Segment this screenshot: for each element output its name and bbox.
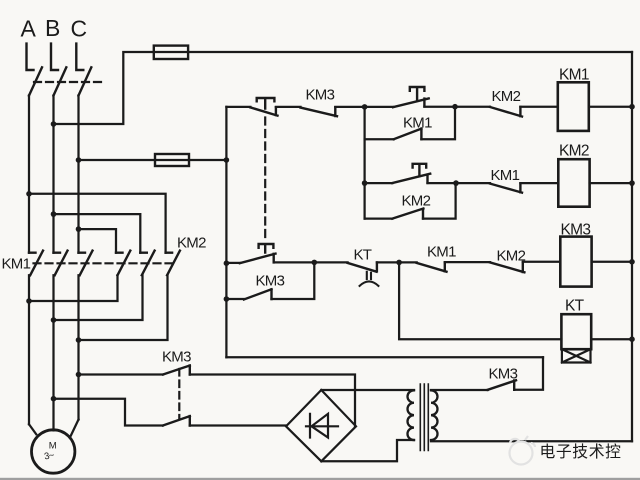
wire row3 SB1 to node — [274, 261, 315, 263]
wire bridge AC top to transformer secondary top — [321, 389, 414, 391]
svg-text:KM2: KM2 — [559, 143, 589, 160]
wire row3 KT to node — [377, 261, 399, 263]
junction braking tap on phase C — [76, 372, 82, 378]
wire KM2 pole 1 output — [29, 275, 118, 301]
junction row2 branch node right — [453, 180, 459, 186]
svg-text:KM3: KM3 — [162, 349, 191, 366]
bridge rectifier VC body — [286, 390, 356, 461]
wire KM3 brake contact 2 to bridge DC minus — [190, 424, 286, 426]
watermark logo — [510, 436, 536, 465]
wire KT coil to right rail — [591, 338, 632, 340]
junction phase A crossover tap — [26, 191, 32, 197]
junction right rail row3 — [629, 259, 635, 265]
fuse FU2 — [155, 154, 189, 166]
wire KM1 self-hold to node right — [421, 107, 455, 140]
pushbutton SB1 actuator — [257, 98, 275, 109]
contactor KM2 main pole 1 — [116, 251, 130, 276]
wire row1 node to SB2 — [365, 106, 393, 108]
wire motor lead W entry — [71, 420, 79, 436]
transformer T secondary winding — [407, 390, 414, 440]
contactor KM3 brake contact 1 — [163, 366, 190, 375]
fuse FU1 — [154, 46, 188, 59]
wire KM1 pole 3 output to motor lead W — [77, 275, 79, 419]
wire row3 KM1 interlock to KM2 interlock — [445, 261, 490, 263]
junction row3 KT coil node — [396, 260, 402, 266]
wire motor lead U entry — [29, 424, 36, 434]
junction phase B crossover tap — [51, 211, 57, 217]
svg-text:KM2: KM2 — [402, 193, 431, 210]
mechanical link KM1-KM2 main contacts — [34, 262, 178, 264]
time relay coil KT delay element — [562, 349, 591, 362]
transformer T core — [420, 384, 428, 451]
pushbutton SB1 brake actuator — [259, 244, 274, 253]
wire KM3 aux contact to bottom control line — [514, 357, 543, 390]
disconnect switch QS pole C blade — [79, 67, 92, 95]
contactor KM1 main pole 3 — [79, 251, 93, 276]
junction left control rail at fuse FU2 — [224, 157, 230, 163]
wire KM1 self-hold branch left drop — [363, 107, 365, 219]
junction row3 at left rail — [224, 260, 230, 266]
wire row2 node to KM1 interlock — [456, 182, 490, 184]
pushbutton SB3 actuator — [413, 164, 427, 176]
transformer T primary winding — [431, 390, 438, 440]
junction on phase B feeding fuse FU1 — [51, 121, 57, 127]
bottom photo border — [0, 478, 640, 480]
wire phase C crossover to KM2 pole 1 — [79, 229, 117, 253]
wire fuse FU2 to left control rail — [189, 159, 226, 161]
disconnect switch QS pole A blade — [29, 67, 42, 95]
junction row1 branch node right — [452, 104, 458, 110]
junction row3 self-hold node — [312, 260, 318, 266]
wire KM2 pole 3 output — [79, 275, 168, 340]
wire KM2 coil to right rail — [590, 182, 632, 184]
wire KM3 brake contact 1 to bridge DC plus — [190, 375, 355, 427]
wire row3 node to KM1 interlock — [399, 261, 417, 263]
time relay coil KT body — [561, 314, 591, 349]
svg-text:3~: 3~ — [43, 450, 55, 463]
wire bridge AC bottom to transformer secondary bottom — [321, 440, 414, 461]
disconnect switch QS pole B blade — [54, 67, 67, 95]
left control rail — [225, 107, 227, 357]
wire KM3 self-hold to node — [272, 262, 315, 299]
wire braking tap B to KM3 brake contact 2 — [54, 399, 163, 426]
contactor KM2 self-hold NO contact — [392, 209, 423, 219]
disconnect switch QS pole A terminal — [27, 44, 34, 70]
junction right rail KT — [629, 336, 635, 342]
junction merge pole 3 — [76, 337, 82, 343]
junction row2 branch node left — [362, 180, 368, 186]
wire row1 start — [226, 106, 250, 108]
mechanical link KM3 brake contacts — [178, 369, 180, 419]
pushbutton SB1 brake contact NO row3 — [240, 254, 276, 264]
junction on phase C feeding fuse FU2 — [76, 157, 82, 163]
bridge rectifier VC diode symbol — [306, 414, 338, 438]
svg-text:KM2: KM2 — [492, 88, 521, 105]
wire KM2 pole 2 output — [54, 275, 143, 320]
svg-text:KT: KT — [354, 247, 372, 264]
contactor KM1 interlock NC contact row3 — [417, 262, 447, 271]
junction braking tap on phase B — [51, 396, 57, 402]
contactor KM1 main pole 2 — [54, 251, 68, 276]
wire phase A crossover to KM2 pole 3 — [29, 194, 166, 253]
wire KM2 self-hold branch bottom — [365, 217, 393, 219]
wire KM3 coil to right rail — [592, 261, 632, 263]
svg-text:C: C — [71, 16, 87, 42]
wire bottom control line — [226, 356, 543, 358]
wire row1 SB1 to KM3 interlock — [276, 106, 301, 108]
wire phase A vertical — [28, 96, 30, 253]
pushbutton SB1 stop contact NC — [250, 107, 277, 115]
wire row1 KM2 interlock to KM1 coil — [520, 106, 557, 108]
contactor KM3 aux contact (transformer circuit) — [488, 380, 516, 390]
pushbutton SB2 actuator — [410, 87, 425, 100]
pushbutton SB2 start forward NO — [393, 98, 429, 107]
wire row2 SB3 to node right — [428, 182, 457, 184]
wire transformer primary top to KM3 aux contact — [431, 389, 488, 391]
junction merge pole 2 — [51, 317, 57, 323]
junction phase C crossover tap — [76, 226, 82, 232]
wire from phase B to fuse FU1 — [54, 52, 189, 124]
contactor coil KM2 — [558, 159, 589, 207]
contactor KM1 interlock NC contact row2 — [490, 183, 522, 192]
right rail — [631, 52, 633, 441]
junction merge pole 1 — [26, 298, 32, 304]
disconnect switch QS pole C terminal — [76, 44, 83, 70]
pushbutton SB1 mechanical link — [264, 118, 266, 242]
contactor KM2 interlock NC contact row1 — [490, 107, 522, 117]
contactor KM3 interlock NC contact row1 — [301, 107, 338, 116]
wire row1 KM3 interlock to node — [335, 106, 364, 108]
pushbutton SB3 start reverse NO — [392, 174, 430, 183]
wire row3 KM2 interlock to KM3 coil — [523, 261, 561, 263]
svg-text:电子技术控: 电子技术控 — [540, 443, 622, 461]
time relay KT delayed NC contact — [348, 262, 377, 271]
disconnect switch QS pole B terminal — [51, 44, 58, 70]
wire row3 node to KT contact — [314, 261, 347, 263]
contactor KM2 main pole 3 — [166, 251, 180, 276]
wire KM1 coil to right rail — [589, 106, 632, 108]
wire KM1 pole 2 output to motor lead V — [52, 275, 54, 430]
time relay KT delay symbol — [360, 272, 379, 286]
wire row3 start — [226, 262, 239, 264]
wire KT coil branch drop — [399, 262, 561, 339]
svg-text:A: A — [21, 16, 37, 42]
junction row1 branch node left — [362, 104, 368, 110]
wire phase B vertical — [52, 96, 54, 253]
wire from phase C to fuse FU2 — [79, 159, 190, 161]
contactor KM3 self-hold NO contact — [244, 289, 272, 299]
motor M 3-phase — [32, 430, 75, 473]
wire KM1 self-hold branch bottom — [365, 138, 394, 140]
svg-text:KT: KT — [565, 298, 585, 315]
wire fuse FU1 to right rail — [188, 51, 632, 53]
wire braking tap C to KM3 brake contact 1 — [79, 373, 164, 375]
svg-text:KM1: KM1 — [491, 167, 520, 184]
wire phase C vertical — [77, 96, 79, 253]
contactor coil KM1 — [558, 82, 589, 131]
wire motor lead V entry — [52, 429, 54, 431]
svg-text:KM1: KM1 — [2, 256, 31, 273]
junction right rail row1 — [629, 104, 635, 110]
wire KM3 self-hold branch bottom — [226, 298, 244, 300]
disconnect switch QS mechanical link — [34, 81, 102, 83]
svg-text:KM1: KM1 — [559, 67, 589, 84]
wire row1 SB2 to node right — [424, 106, 455, 108]
wire row1 node to KM2 interlock — [455, 106, 490, 108]
svg-text:KM1: KM1 — [427, 244, 456, 261]
svg-text:KM3: KM3 — [306, 87, 335, 104]
svg-text:KM2: KM2 — [497, 248, 526, 265]
svg-text:KM2: KM2 — [177, 235, 206, 252]
junction KM3 self-hold at left rail — [224, 296, 230, 302]
contactor KM2 interlock NC contact row3 — [490, 262, 524, 272]
wire KM2 self-hold to node right — [423, 183, 456, 219]
junction right rail row2 — [629, 180, 635, 186]
wire row2 KM1 interlock to KM2 coil — [520, 182, 558, 184]
svg-text:KM3: KM3 — [256, 273, 285, 290]
contactor KM3 brake contact 2 — [163, 416, 190, 425]
wire row2 node to SB3 — [365, 182, 393, 184]
wire phase B crossover to KM2 pole 2 — [54, 214, 141, 253]
contactor KM1 main pole 1 — [29, 251, 43, 276]
contactor KM2 main pole 2 — [140, 251, 154, 276]
contactor KM1 self-hold NO contact — [394, 129, 422, 140]
svg-text:B: B — [45, 15, 60, 41]
contactor coil KM3 — [560, 237, 591, 287]
wire KM1 pole 1 output to motor lead U — [28, 275, 30, 424]
wire transformer primary bottom to right rail — [431, 440, 632, 441]
